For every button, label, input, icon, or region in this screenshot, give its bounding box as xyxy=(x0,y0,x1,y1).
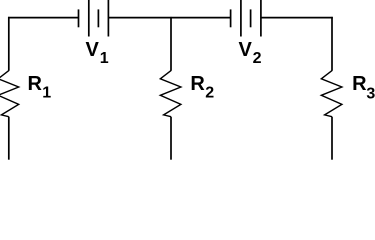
node B junction: middle vertical wire top xyxy=(170,17,172,71)
svg-text:R: R xyxy=(352,73,367,95)
svg-text:V: V xyxy=(239,39,253,61)
label V2 xyxy=(239,39,262,67)
svg-text:1: 1 xyxy=(100,50,109,67)
svg-text:V: V xyxy=(86,39,100,61)
wire right vertical segment (top) xyxy=(331,17,333,71)
svg-text:R: R xyxy=(28,73,43,95)
battery V1 xyxy=(79,0,109,37)
label R3 xyxy=(352,73,375,103)
wire left vertical segment (top) xyxy=(8,17,10,71)
resistor R2 xyxy=(160,71,181,117)
svg-text:2: 2 xyxy=(253,50,262,67)
wire right vertical segment (bottom) xyxy=(331,117,333,160)
svg-text:2: 2 xyxy=(205,85,214,102)
wire left vertical segment (bottom) xyxy=(8,117,10,160)
wire middle vertical segment (bottom) xyxy=(170,117,172,160)
label V1 xyxy=(86,39,109,67)
wire top-right horizontal segment (V2 positive to node C) xyxy=(261,17,333,19)
label R1 xyxy=(28,73,52,102)
svg-text:3: 3 xyxy=(366,86,375,103)
svg-text:R: R xyxy=(190,73,205,95)
wire top-middle horizontal segment (V1 positive to V2 negative) xyxy=(108,17,230,19)
resistor R1 xyxy=(0,71,19,117)
label R2 xyxy=(190,73,214,102)
resistor R3 xyxy=(321,71,342,117)
svg-text:1: 1 xyxy=(42,85,51,102)
battery V2 xyxy=(231,0,261,37)
wire top-left horizontal segment (node A to V1 negative) xyxy=(8,17,79,19)
